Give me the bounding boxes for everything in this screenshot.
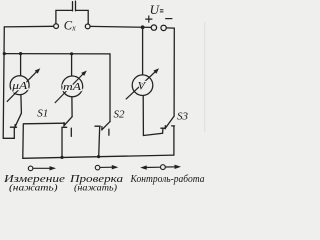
wire S3 lower contact vertical xyxy=(172,126,175,155)
node S1b bottom xyxy=(60,156,63,159)
wire capacitor bracket left xyxy=(56,10,72,23)
scan artifact right edge xyxy=(204,22,206,132)
wire S2 stub xyxy=(108,129,110,135)
switch S1b blade xyxy=(64,117,72,126)
capacitor Cx plates xyxy=(73,1,76,11)
indicator Izmerenie arrow xyxy=(28,166,56,171)
node top-left of second rail xyxy=(3,52,6,55)
meter V xyxy=(126,68,159,99)
meter uA xyxy=(7,68,41,102)
meter mA xyxy=(55,71,87,104)
terminal U minus xyxy=(161,25,166,30)
switch S2 blade xyxy=(102,122,110,130)
svg-text:U: U xyxy=(150,2,161,17)
svg-text:(нажать): (нажать) xyxy=(74,182,117,192)
wire S2 lead vertical xyxy=(109,54,111,122)
terminal U plus xyxy=(151,25,156,30)
wire top middle xyxy=(90,26,151,27)
wire uA bottom lead xyxy=(20,95,23,113)
node uA top xyxy=(19,52,22,55)
wire uA top lead xyxy=(20,54,22,76)
svg-text:(нажать): (нажать) xyxy=(9,182,58,192)
node V top xyxy=(141,25,145,29)
switch S1a blade xyxy=(15,113,22,127)
svg-text:mA: mA xyxy=(63,82,82,93)
switch S2 fixed contact xyxy=(95,126,100,156)
label plus xyxy=(145,16,152,23)
wire mA bottom lead xyxy=(71,97,73,117)
terminal Cx left xyxy=(54,24,59,29)
switch S3 blade xyxy=(165,116,174,128)
wire S1 link xyxy=(23,122,64,125)
junction dots xyxy=(3,25,145,159)
wire V bottom lead xyxy=(142,95,144,135)
svg-text:μA: μA xyxy=(11,81,29,92)
wire V top lead xyxy=(142,27,144,75)
wire from minus terminal xyxy=(166,27,174,29)
wire S1b stub xyxy=(70,128,72,136)
switch S1a fixed contact hook xyxy=(3,127,16,138)
node S2 bottom xyxy=(97,155,100,158)
wire top-left horizontal xyxy=(4,25,53,28)
node mA top xyxy=(70,52,73,55)
terminal Cx right xyxy=(85,24,90,29)
wire capacitor bracket right xyxy=(76,10,88,24)
indicator Proverka arrow xyxy=(95,165,118,170)
wire bottom rail xyxy=(23,155,174,158)
terminal circles xyxy=(54,24,167,31)
indicator Kontrol-rabota double arrow xyxy=(140,165,181,170)
svg-text:S1: S1 xyxy=(37,108,48,120)
wire V to S3 contact xyxy=(143,128,165,135)
label minus xyxy=(165,18,172,20)
wire S1 common vertical xyxy=(22,125,25,159)
wire right rail vertical xyxy=(173,28,175,116)
svg-text:S2: S2 xyxy=(114,108,126,120)
svg-text:Контроль-работа: Контроль-работа xyxy=(130,174,205,185)
switch S1b fixed contact xyxy=(62,127,67,157)
wire second rail xyxy=(4,53,110,55)
svg-text:S3: S3 xyxy=(177,111,189,123)
wire mA top lead xyxy=(71,54,73,76)
wire left frame vertical xyxy=(3,27,4,138)
